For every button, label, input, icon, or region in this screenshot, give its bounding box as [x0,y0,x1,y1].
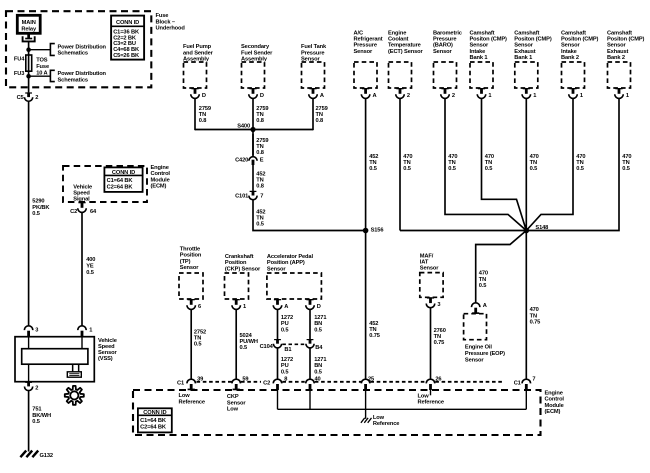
svg-text:1: 1 [243,304,246,310]
svg-text:Position (APP): Position (APP) [267,260,305,266]
VSS pickup coil rectangle [22,349,88,365]
wire A/C sensor to ECM pin 25 [365,98,367,379]
svg-text:Sensor: Sensor [465,357,484,363]
svg-text:Power Distribution: Power Distribution [58,71,107,77]
svg-text:Engine: Engine [151,165,169,171]
svg-text:S148: S148 [535,225,548,231]
wire ECM pin26 stub [430,390,432,395]
svg-text:0.8: 0.8 [316,118,324,124]
svg-text:Schematics: Schematics [58,78,88,84]
wire ECM low reference bus [278,408,527,410]
fuse FU TOS 10A body [26,55,32,71]
svg-text:IAT: IAT [420,260,429,266]
svg-text:S156: S156 [371,228,384,234]
svg-text:C1: C1 [177,380,184,386]
connector VSS pin 1 [78,326,87,330]
ground low reference symbol [361,418,372,423]
svg-text:PU/WH: PU/WH [240,339,258,345]
gear icon [65,386,84,405]
wire 1272 PU upper [277,309,279,339]
svg-text:3: 3 [35,327,38,333]
svg-text:Bank 1: Bank 1 [470,55,488,61]
svg-text:S400: S400 [237,124,250,130]
svg-text:Pressure: Pressure [354,43,377,49]
svg-text:G132: G132 [40,453,53,459]
svg-text:751: 751 [32,407,41,413]
connector C420 pin E [249,157,257,161]
wire ECM pin25 drop to low reference ground [365,390,367,419]
svg-text:0.5: 0.5 [622,166,630,172]
svg-text:C1: C1 [514,380,521,386]
connector MAF pin 3 [427,297,434,298]
vehicle speed sensor VSS box [15,337,94,382]
svg-text:CONN ID: CONN ID [116,20,139,26]
svg-text:2: 2 [407,93,410,99]
wire 1271 BN upper [309,309,311,339]
svg-text:FU3: FU3 [14,71,24,77]
svg-text:Position: Position [180,253,202,259]
bracket power distribution 2 [50,70,54,81]
connector engine coolant temperature ECT sensor pin 2 [396,88,403,89]
svg-text:(BARO): (BARO) [433,43,453,49]
svg-text:C1=64 BK: C1=64 BK [107,178,134,184]
svg-text:2: 2 [35,386,38,392]
svg-text:0.5: 0.5 [314,369,322,375]
svg-text:1: 1 [533,93,536,99]
svg-text:Low: Low [418,393,430,399]
svg-text:0.5: 0.5 [194,342,202,348]
svg-text:TN: TN [530,313,537,319]
wire VSS internal pin3 [28,337,30,349]
svg-text:Fuel Sender: Fuel Sender [241,50,273,56]
svg-text:Exhaust: Exhaust [607,49,629,55]
svg-text:0.5: 0.5 [448,166,456,172]
svg-text:BN: BN [314,321,322,327]
connector TP pin 6 [188,299,195,300]
fuse block underhood dashed box [6,11,151,87]
wire main feed vertical [28,41,30,92]
svg-text:Low: Low [179,393,191,399]
svg-text:C2=64 BK: C2=64 BK [107,184,134,190]
svg-text:Low: Low [227,407,239,413]
svg-text:CONN ID: CONN ID [143,410,166,416]
svg-text:Underhood: Underhood [156,26,186,32]
svg-text:0.5: 0.5 [86,270,94,276]
svg-text:A/C: A/C [354,30,363,36]
node S400 [250,127,255,132]
svg-text:(ECM): (ECM) [545,409,561,415]
svg-text:Bank 2: Bank 2 [607,55,625,61]
wire ECT sensor drop [399,98,401,230]
svg-text:and Sender: and Sender [183,50,214,56]
svg-text:Secondary: Secondary [241,44,270,50]
svg-text:0.8: 0.8 [256,184,264,190]
wire ECM pin8 drop [277,390,279,409]
svg-text:B1: B1 [284,347,291,353]
svg-text:Positon (CMP): Positon (CMP) [607,37,645,43]
svg-text:0.8: 0.8 [199,118,207,124]
wire BARO sensor drop [445,98,526,230]
node junction to power distribution 2 [26,74,31,79]
svg-text:PU: PU [281,321,289,327]
svg-text:0.5: 0.5 [314,327,322,333]
svg-text:400: 400 [86,257,95,263]
wire S148 to ECM C1 pin 7 [525,231,527,380]
connector APP pin D [306,299,313,300]
node S148 [524,228,530,234]
svg-text:0.5: 0.5 [281,327,289,333]
svg-text:Crankshaft: Crankshaft [225,254,254,260]
svg-text:7: 7 [260,194,263,200]
svg-text:0.5: 0.5 [240,345,248,351]
wire S400 to C420 [252,134,254,156]
svg-text:0.5: 0.5 [32,211,40,217]
bracket power distribution 1 [50,44,54,56]
svg-text:C5: C5 [17,95,24,101]
wire S400 bus horizontal [195,129,313,131]
wire S148 to EOP sensor [476,231,527,303]
svg-text:C2: C2 [70,209,77,215]
svg-text:A: A [320,93,324,99]
svg-text:Reference: Reference [373,421,399,427]
connector camshaft position CMP sensor intake bank 1 pin 1 [478,88,485,89]
wire 2752 TN [190,309,192,379]
svg-text:Position: Position [225,260,247,266]
svg-text:5290: 5290 [32,199,44,205]
svg-text:D: D [260,93,264,99]
wire 5024 PU/WH [235,309,237,379]
svg-text:0.5: 0.5 [256,222,264,228]
svg-text:A: A [284,304,288,310]
svg-text:1: 1 [89,327,92,333]
svg-text:Sensor: Sensor [180,265,199,271]
svg-text:0.8: 0.8 [256,150,264,156]
svg-text:0.75: 0.75 [369,333,380,339]
wire CMP exhaust bank2 drop [526,98,619,230]
svg-text:Camshaft: Camshaft [607,30,632,36]
svg-text:Sensor: Sensor [420,266,439,272]
svg-text:C2: C2 [263,380,270,386]
svg-text:FU4: FU4 [14,56,25,62]
svg-text:Exhaust: Exhaust [514,49,536,55]
svg-text:D: D [317,304,321,310]
svg-text:1271: 1271 [314,357,326,363]
svg-text:(VSS): (VSS) [98,356,113,362]
svg-text:1: 1 [580,93,583,99]
svg-text:1272: 1272 [281,315,293,321]
connector ECM pin 25 [361,379,370,383]
wire CMP intake bank2 drop [526,98,573,230]
svg-text:TN: TN [194,336,201,342]
connector ECM pin 40 [306,379,315,383]
svg-text:0.5: 0.5 [281,369,289,375]
svg-text:Sensor: Sensor [607,43,626,49]
svg-text:(ECM): (ECM) [151,184,167,190]
svg-text:Control: Control [151,171,171,177]
svg-text:Module: Module [151,177,170,183]
svg-text:0.5: 0.5 [576,166,584,172]
svg-text:Bank 1: Bank 1 [514,55,532,61]
wire 1271 BN lower [309,348,311,379]
svg-text:Sensor: Sensor [354,49,373,55]
wire ECM pin40 drop [309,390,311,409]
svg-text:(TP): (TP) [180,259,191,265]
connector CKP pin 1 [233,299,240,300]
wire ECT horizontal into S148 [400,230,526,232]
wire fuel tank pressure to S400 [312,98,314,130]
wire secondary fuel sender to S400 [252,98,254,155]
wire 400 YE [81,212,83,326]
connector camshaft position CMP sensor exhaust bank 1 pin 1 [523,88,530,89]
connector ECM C1 pin 39 [187,379,196,383]
svg-text:0.8: 0.8 [256,118,264,124]
svg-text:Sensor: Sensor [227,400,246,406]
svg-text:Block –: Block – [156,19,175,25]
wire 2760 TN MAF to pin 26 [430,308,432,380]
svg-text:C104: C104 [260,344,274,350]
connector ECM C1 pin 7 [522,379,531,383]
svg-text:2: 2 [452,93,455,99]
svg-text:Power Distribution: Power Distribution [58,44,107,50]
svg-text:Throttle: Throttle [180,246,200,252]
svg-text:64: 64 [90,209,97,215]
module ECM vehicle speed signal dashed box [63,166,147,202]
connector barometric pressure BARO sensor pin 2 [441,88,448,89]
svg-text:Positon (CMP): Positon (CMP) [470,37,508,43]
svg-text:Engine: Engine [545,390,563,396]
svg-text:Vehicle: Vehicle [73,184,92,190]
svg-text:Pressure (EOP): Pressure (EOP) [465,351,505,357]
svg-text:7: 7 [532,377,535,383]
svg-text:2752: 2752 [194,330,206,336]
connector ECM pin 59 [232,379,241,383]
svg-text:CONN ID: CONN ID [112,170,135,176]
svg-text:Sensor: Sensor [470,43,489,49]
svg-text:Control: Control [545,397,565,403]
svg-text:0.5: 0.5 [530,166,538,172]
svg-text:(ECT) Sensor: (ECT) Sensor [388,49,423,55]
svg-text:Sensor: Sensor [433,49,452,55]
svg-text:BN: BN [314,363,322,369]
svg-text:Pressure: Pressure [433,37,456,43]
wire to power distribution 1 [29,49,51,51]
svg-text:BK/WH: BK/WH [32,413,51,419]
svg-text:Module: Module [545,403,564,409]
svg-text:TN: TN [479,277,486,283]
node junction to power distribution 1 [26,47,31,52]
svg-text:0.5: 0.5 [369,166,377,172]
connector C2 pin 64 [78,202,85,203]
svg-text:0.75: 0.75 [530,320,541,326]
svg-text:Engine Oil: Engine Oil [465,345,492,351]
svg-text:Fuel Tank: Fuel Tank [301,44,327,50]
connector APP pin A [274,299,281,300]
svg-text:B4: B4 [315,345,323,351]
svg-text:Speed: Speed [73,191,90,197]
table CONN ID fuse block [111,16,144,60]
svg-text:470: 470 [530,307,539,313]
svg-text:Pressure: Pressure [301,50,324,56]
svg-text:Engine: Engine [388,30,406,36]
wire VSS internal pin1 [81,337,83,349]
svg-text:Reference: Reference [179,399,205,405]
svg-text:C1=64 BK: C1=64 BK [140,418,167,424]
svg-text:Intake: Intake [470,49,486,55]
svg-text:Barometric: Barometric [433,30,462,36]
svg-text:Camshaft: Camshaft [514,30,539,36]
svg-text:Camshaft: Camshaft [561,30,586,36]
connector C104 pin B4 [307,339,314,340]
svg-text:Sensor: Sensor [514,43,533,49]
svg-text:Sensor: Sensor [267,266,286,272]
connector fuel pump and sender assembly pin D [191,88,198,89]
svg-text:0.75: 0.75 [434,340,445,346]
svg-text:D: D [202,93,206,99]
svg-text:CKP: CKP [227,394,239,400]
svg-text:1: 1 [488,93,491,99]
wire 5290 PK/BK [28,101,30,326]
wire C101 to S156 [253,200,366,231]
svg-text:Camshaft: Camshaft [470,30,495,36]
svg-text:Temperature: Temperature [388,43,421,49]
VSS magnet element [72,364,74,372]
svg-text:Fuel Pump: Fuel Pump [183,44,212,50]
connector ECM C2 pin 8 [273,379,282,383]
svg-text:Sensor: Sensor [561,43,580,49]
connector camshaft position CMP sensor intake bank 2 pin 1 [569,88,576,89]
svg-text:Intake: Intake [561,49,577,55]
svg-text:PK/BK: PK/BK [32,205,50,211]
svg-text:MAF/: MAF/ [420,253,434,259]
svg-text:0.5: 0.5 [403,166,411,172]
svg-text:C2=64 BK: C2=64 BK [140,424,167,430]
connector C104 dashed line [282,343,305,345]
svg-text:MAIN: MAIN [22,20,36,26]
svg-text:C420: C420 [235,157,248,163]
sensor engine oil pressure EOP box [464,314,487,340]
wire ECM C1 pin7 drop [525,390,527,409]
wire 1272 PU lower [277,348,279,379]
connector C104 pin B1 [274,339,281,340]
svg-text:0.5: 0.5 [32,419,40,425]
svg-text:TOS: TOS [36,58,48,64]
wire C420 to C101 [252,165,254,191]
svg-text:Positon (CMP): Positon (CMP) [561,37,599,43]
svg-text:2: 2 [35,95,38,101]
wire to power distribution 2 [29,75,51,77]
connector ECM pin 26 [426,379,435,383]
svg-text:Fuse: Fuse [156,13,169,19]
svg-text:3: 3 [437,302,440,308]
wire fuel pump to S400 [194,98,196,130]
wire CMP intake bank1 drop [482,98,527,230]
connector C5 pin 2 [25,92,32,93]
relay socket terminal [27,33,30,38]
svg-text:Fuse: Fuse [36,64,49,70]
ground G132 [20,451,38,458]
module engine control module ECM dashed box [133,390,541,435]
svg-text:PU: PU [281,363,289,369]
wire ECM connector dashed row [197,381,232,383]
svg-text:5024: 5024 [240,333,253,339]
svg-text:Signal: Signal [73,197,90,203]
svg-text:Refrigerant: Refrigerant [354,37,383,43]
svg-text:Schematics: Schematics [58,51,88,57]
svg-text:C5=26 BK: C5=26 BK [113,53,140,59]
svg-text:Relay: Relay [21,27,37,33]
wire 751 BK/WH [28,391,30,452]
svg-text:C101: C101 [235,194,248,200]
connector fuel tank pressure sensor pin A [309,88,316,89]
connector camshaft position CMP sensor exhaust bank 2 pin 1 [615,88,622,89]
wire CMP exhaust bank1 drop [525,98,527,230]
connector VSS pin 3 [24,326,32,330]
svg-text:A: A [373,93,377,99]
svg-text:6: 6 [198,304,201,310]
svg-text:0.5: 0.5 [485,166,493,172]
connector VSS pin 2 [25,382,32,383]
svg-text:1271: 1271 [314,315,326,321]
table CONN ID lower ECM [138,408,172,432]
svg-text:Positon (CMP): Positon (CMP) [514,37,552,43]
svg-text:1272: 1272 [281,357,293,363]
svg-text:10 A: 10 A [36,70,47,76]
svg-text:Coolant: Coolant [388,37,409,43]
svg-text:YE: YE [86,264,94,270]
svg-text:Reference: Reference [418,400,444,406]
svg-text:470: 470 [479,271,488,277]
node S156 [363,228,369,234]
connector A/C refrigerant pressure sensor pin A [362,88,369,89]
relay K MAIN Relay box [17,15,40,33]
svg-text:1: 1 [626,93,629,99]
table CONN ID upper ECM [104,167,142,192]
connector secondary fuel sender assembly pin D [249,88,256,89]
svg-text:(CKP) Sensor: (CKP) Sensor [225,266,261,272]
svg-text:0.5: 0.5 [479,283,487,289]
svg-text:A: A [483,303,487,309]
svg-text:Bank 2: Bank 2 [561,55,579,61]
connector C101 pin 7 [250,191,257,192]
svg-text:Low: Low [373,415,385,421]
connector EOP pin A [471,303,480,307]
svg-text:Accelerator Pedal: Accelerator Pedal [267,254,314,260]
wire VSS internal pin2 [28,364,30,382]
svg-text:E: E [260,157,264,163]
